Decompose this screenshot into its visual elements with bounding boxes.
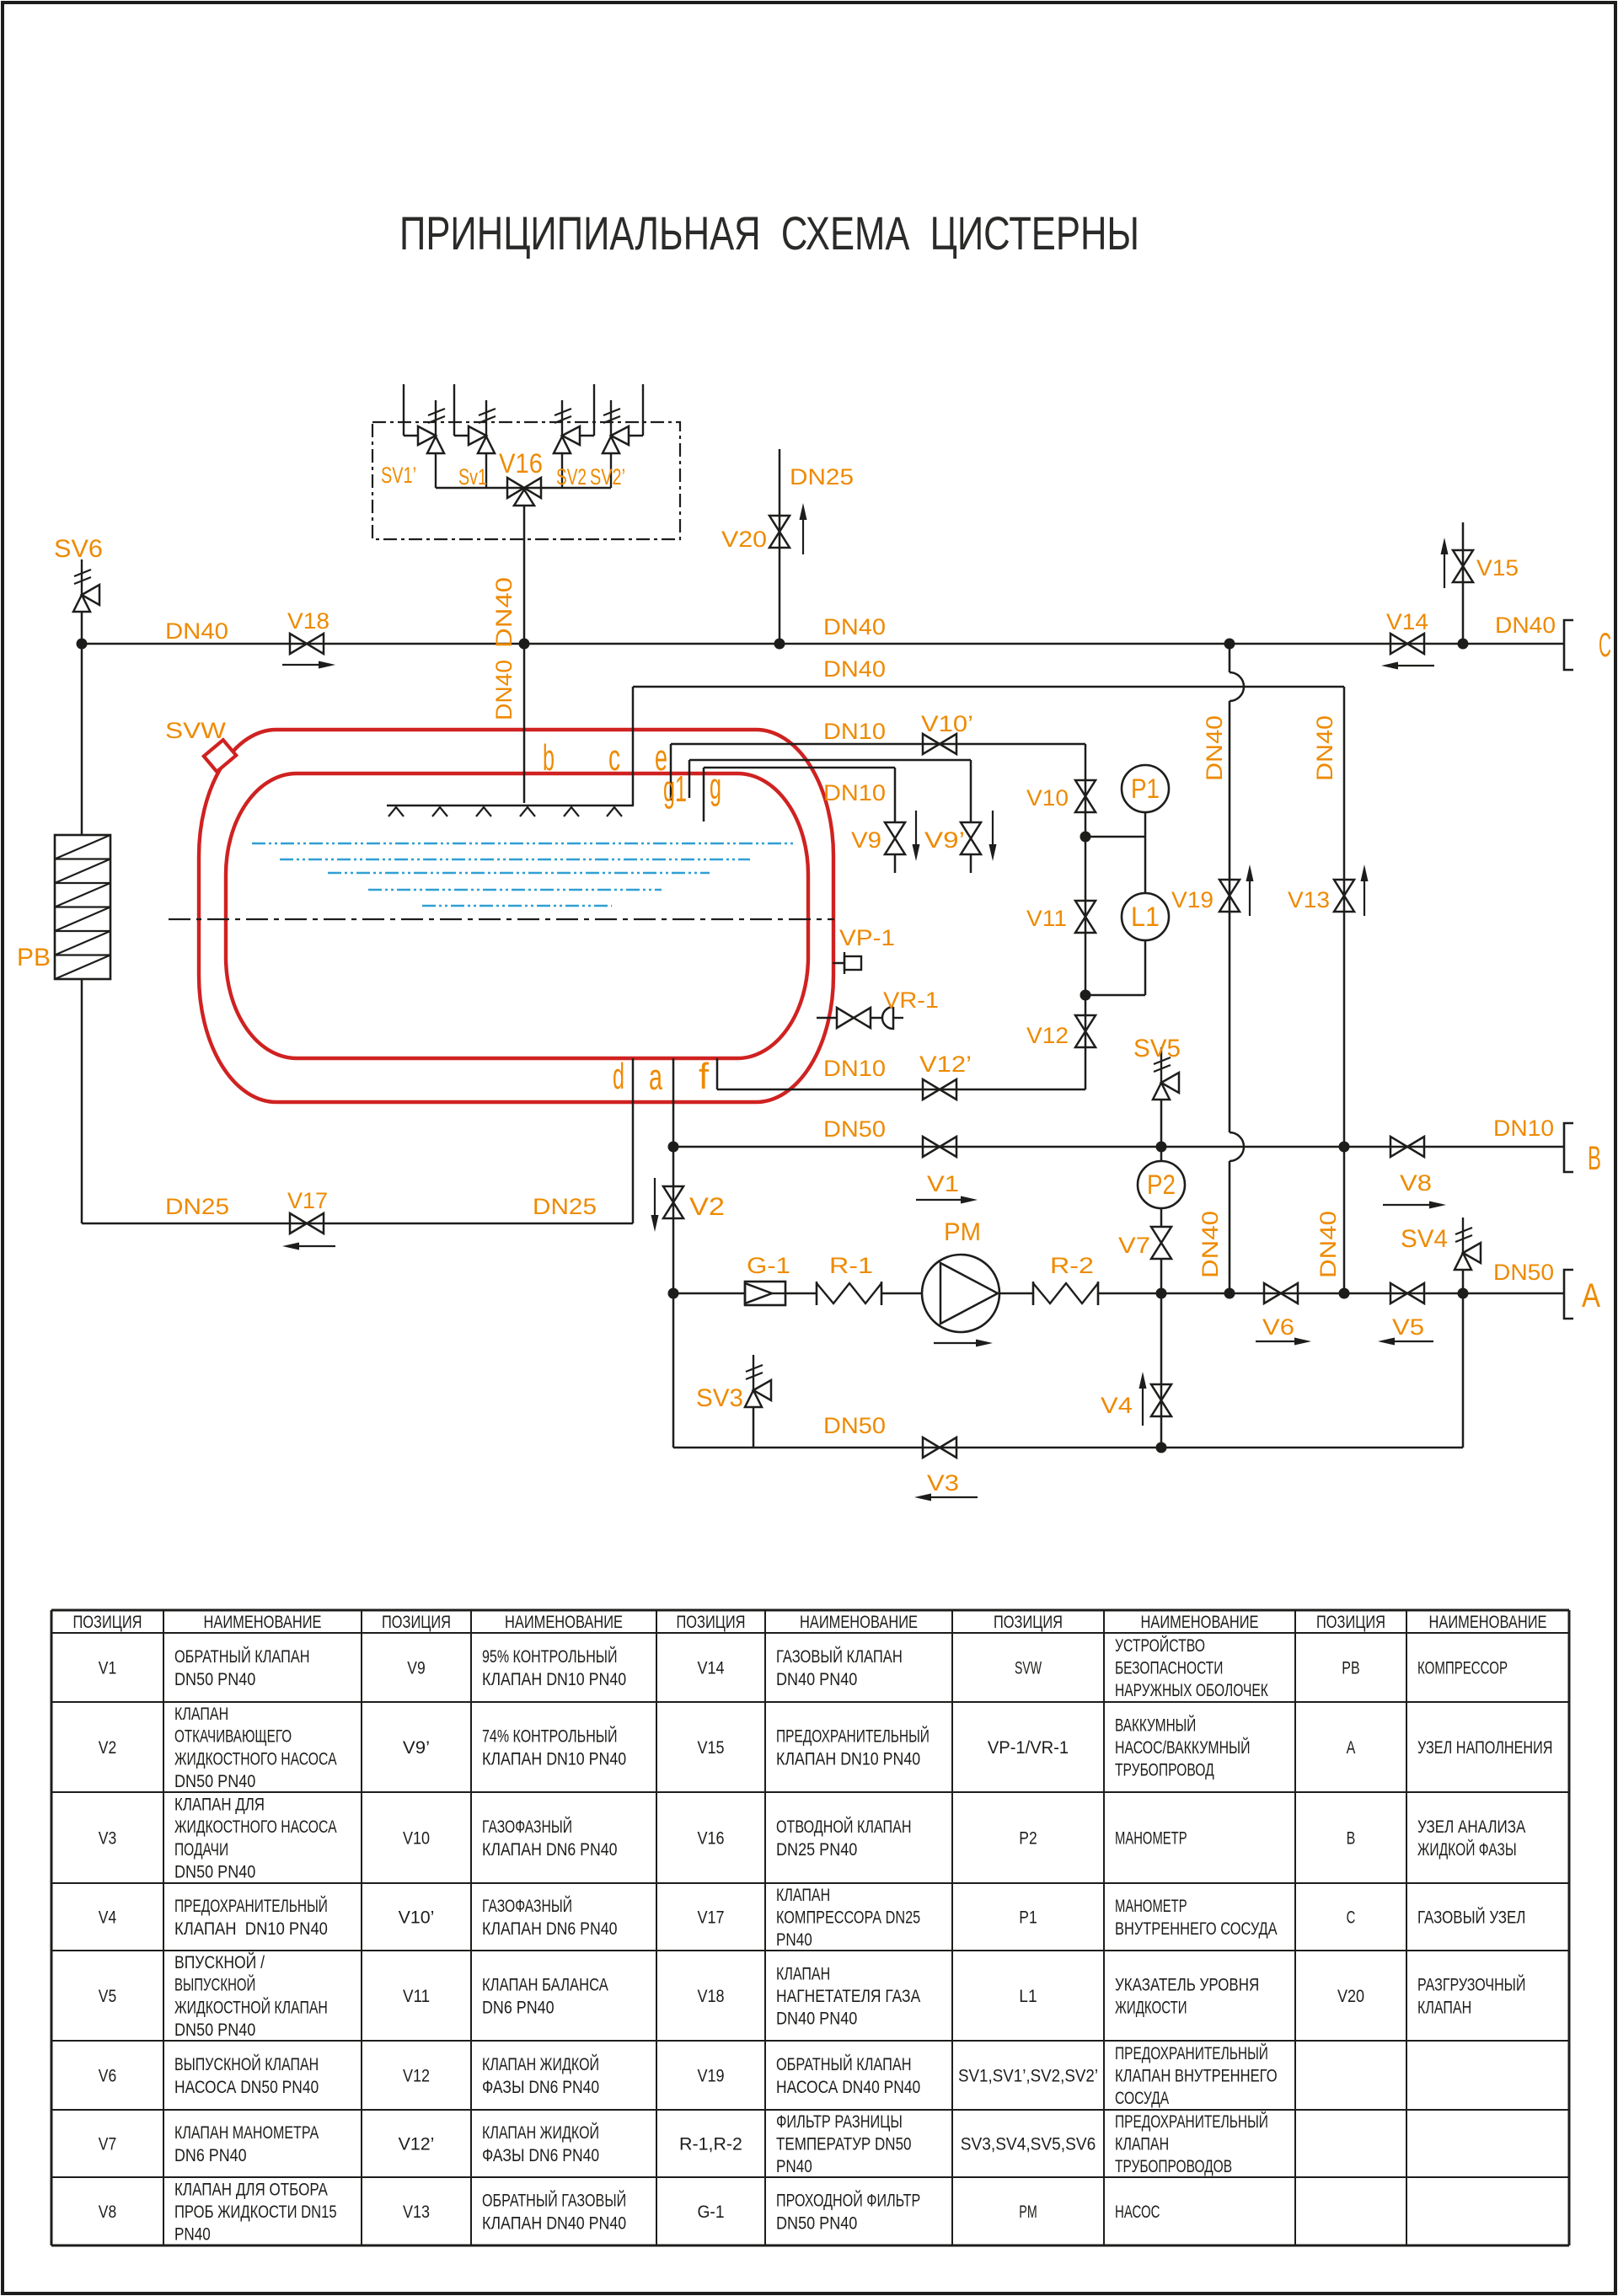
pipe SV3 to loop xyxy=(753,1407,755,1448)
svg-text:ПРОХОДНОЙ ФИЛЬТР: ПРОХОДНОЙ ФИЛЬТР xyxy=(776,2191,920,2211)
svg-text:УСТРОЙСТВО: УСТРОЙСТВО xyxy=(1115,1635,1205,1656)
valve V5 liquid xyxy=(1390,1283,1424,1303)
svg-text:DN50 PN40: DN50 PN40 xyxy=(776,2213,857,2233)
svg-text:V1: V1 xyxy=(99,1659,116,1678)
svg-text:КОМПРЕССОРА DN25: КОМПРЕССОРА DN25 xyxy=(776,1908,920,1928)
svg-text:ПОЗИЦИЯ: ПОЗИЦИЯ xyxy=(994,1613,1063,1632)
svg-text:V15: V15 xyxy=(697,1738,724,1758)
svg-text:КЛАПАН DN40 PN40: КЛАПАН DN40 PN40 xyxy=(482,2213,626,2233)
svg-text:DN40: DN40 xyxy=(1315,1211,1341,1278)
filter R-1 xyxy=(816,1282,818,1305)
svg-text:V4: V4 xyxy=(1101,1393,1133,1418)
svg-text:КЛАПАН ЖИДКОЙ: КЛАПАН ЖИДКОЙ xyxy=(482,2054,599,2074)
svg-text:КОМПРЕССОР: КОМПРЕССОР xyxy=(1417,1659,1508,1678)
svg-text:SV2’: SV2’ xyxy=(590,464,625,490)
svg-text:V20: V20 xyxy=(721,527,767,552)
svg-text:КЛАПАН ВНУТРЕННЕГО: КЛАПАН ВНУТРЕННЕГО xyxy=(1115,2067,1278,2086)
table grid xyxy=(51,1609,1569,1612)
gauge L1 link xyxy=(1085,994,1145,997)
pipe SV6 to main xyxy=(81,612,83,644)
svg-text:V17: V17 xyxy=(287,1188,328,1213)
pipe node b riser xyxy=(523,506,526,803)
svg-text:V7: V7 xyxy=(1118,1233,1150,1258)
svg-text:VR-1: VR-1 xyxy=(883,987,939,1013)
svg-text:НАСОСА DN40 PN40: НАСОСА DN40 PN40 xyxy=(776,2078,920,2097)
liquid level line 3 xyxy=(328,872,710,874)
gauge P1 stem xyxy=(1144,812,1147,893)
svg-text:DN40: DN40 xyxy=(1495,613,1556,638)
svg-text:V11: V11 xyxy=(403,1987,430,2006)
pipe DN10 liquid line f xyxy=(717,1089,1085,1091)
svg-text:DN40: DN40 xyxy=(165,618,228,644)
pipe SV4 to pump line xyxy=(1462,1270,1465,1293)
tank axis centerline xyxy=(169,918,834,920)
flow arrow V4 xyxy=(1142,1389,1144,1426)
svg-text:КЛАПАН: КЛАПАН xyxy=(1115,2135,1169,2154)
svg-text:b: b xyxy=(543,737,555,779)
pipe DN50 line B xyxy=(673,1146,1564,1148)
svg-text:DN40: DN40 xyxy=(1312,715,1337,781)
svg-text:c: c xyxy=(608,737,620,779)
svg-text:DN40: DN40 xyxy=(491,577,517,648)
junction at V19 riser xyxy=(1224,639,1235,650)
svg-text:SVW: SVW xyxy=(1015,1659,1042,1678)
svg-text:КЛАПАН DN10 PN40: КЛАПАН DN10 PN40 xyxy=(174,1919,328,1939)
svg-text:DN40: DN40 xyxy=(823,656,886,682)
svg-text:V13: V13 xyxy=(1288,887,1330,913)
junction V19-pump xyxy=(1224,1288,1235,1299)
svg-text:КЛАПАН: КЛАПАН xyxy=(174,1705,228,1724)
svg-text:ФАЗЫ DN6 PN40: ФАЗЫ DN6 PN40 xyxy=(482,2146,599,2165)
svg-text:ЖИДКОСТИ: ЖИДКОСТИ xyxy=(1115,1998,1187,2017)
svg-text:V11: V11 xyxy=(1026,906,1067,931)
svg-text:SV5: SV5 xyxy=(1133,1035,1181,1062)
svg-text:DN25 PN40: DN25 PN40 xyxy=(776,1840,857,1860)
pipe V7 to pump line xyxy=(1160,1259,1163,1293)
svg-text:ВЫПУСКНОЙ: ВЫПУСКНОЙ xyxy=(174,1975,255,1995)
junction at V20 xyxy=(774,639,785,650)
svg-text:DN40: DN40 xyxy=(1202,715,1227,781)
svg-text:SV3,SV4,SV5,SV6: SV3,SV4,SV5,SV6 xyxy=(961,2135,1096,2154)
svg-text:V12: V12 xyxy=(1026,1023,1069,1048)
svg-text:g: g xyxy=(710,766,721,807)
flow arrow V17 xyxy=(299,1245,335,1247)
pipe DN40 gas return line xyxy=(633,686,1344,688)
svg-text:SVW: SVW xyxy=(165,718,227,743)
svg-text:DN10: DN10 xyxy=(823,1056,886,1081)
svg-text:G-1: G-1 xyxy=(747,1253,790,1278)
junction P2-pump xyxy=(1156,1288,1167,1299)
pipe riser to node d xyxy=(632,1058,635,1223)
junction at b-line xyxy=(519,639,530,650)
svg-text:ПРЕДОХРАНИТЕЛЬНЫЙ: ПРЕДОХРАНИТЕЛЬНЫЙ xyxy=(1115,2043,1268,2063)
svg-text:ГАЗОВЫЙ УЗЕЛ: ГАЗОВЫЙ УЗЕЛ xyxy=(1417,1908,1525,1928)
pipe DN40 main gas line xyxy=(82,643,1564,645)
pipe V20 branch xyxy=(779,449,781,644)
svg-text:ПРЕДОХРАНИТЕЛЬНЫЙ: ПРЕДОХРАНИТЕЛЬНЫЙ xyxy=(174,1896,328,1916)
valve V9prime 74pct control xyxy=(961,822,981,854)
svg-text:V18: V18 xyxy=(287,608,329,634)
valve V17 xyxy=(290,1213,324,1234)
junction V13-pump xyxy=(1339,1288,1350,1299)
spray header xyxy=(387,805,634,806)
svg-text:УЗЕЛ НАПОЛНЕНИЯ: УЗЕЛ НАПОЛНЕНИЯ xyxy=(1417,1738,1553,1758)
junction V4-loop xyxy=(1156,1442,1167,1453)
valve V15 safety xyxy=(1453,550,1473,582)
junction SV4-pump xyxy=(1458,1288,1469,1299)
svg-text:A: A xyxy=(1582,1277,1600,1314)
connector A bracket xyxy=(1564,1270,1573,1319)
svg-text:DN40 PN40: DN40 PN40 xyxy=(776,2010,857,2029)
svg-text:f: f xyxy=(699,1056,710,1097)
svg-text:DN25: DN25 xyxy=(533,1194,597,1219)
svg-text:ОТКАЧИВАЮЩЕГО: ОТКАЧИВАЮЩЕГО xyxy=(174,1727,292,1747)
svg-text:V6: V6 xyxy=(1262,1314,1294,1340)
pipe node g riser xyxy=(703,768,705,822)
svg-text:ГАЗОФАЗНЫЙ: ГАЗОФАЗНЫЙ xyxy=(482,1817,572,1837)
valve V8 sampling xyxy=(1390,1137,1424,1157)
svg-text:СОСУДА: СОСУДА xyxy=(1115,2089,1169,2108)
svg-text:B: B xyxy=(1347,1829,1356,1849)
svg-text:DN50 PN40: DN50 PN40 xyxy=(174,2020,255,2040)
svg-text:V2: V2 xyxy=(689,1193,725,1221)
pipe node c riser xyxy=(632,687,635,805)
flow arrow PM xyxy=(934,1342,976,1344)
svg-text:МАНОМЕТР: МАНОМЕТР xyxy=(1115,1897,1187,1916)
valve V16 three-way xyxy=(507,478,541,498)
junction gauge top xyxy=(1080,832,1091,843)
svg-text:КЛАПАН: КЛАПАН xyxy=(776,1964,830,1983)
svg-text:74% КОНТРОЛЬНЫЙ: 74% КОНТРОЛЬНЫЙ xyxy=(482,1726,618,1747)
svg-text:VP-1: VP-1 xyxy=(839,925,895,950)
compressor PB xyxy=(55,835,110,979)
flow arrow V19 xyxy=(1249,881,1251,916)
svg-text:DN40: DN40 xyxy=(491,660,517,720)
svg-text:V19: V19 xyxy=(1171,887,1213,913)
svg-text:НАИМЕНОВАНИЕ: НАИМЕНОВАНИЕ xyxy=(1141,1613,1259,1632)
svg-text:DN6 PN40: DN6 PN40 xyxy=(482,1998,555,2017)
gauge P2 stem bottom xyxy=(1160,1208,1163,1227)
svg-text:НАИМЕНОВАНИЕ: НАИМЕНОВАНИЕ xyxy=(204,1613,322,1632)
svg-text:V12: V12 xyxy=(403,2067,430,2086)
valve V18 xyxy=(290,634,324,654)
svg-text:P1: P1 xyxy=(1019,1908,1037,1928)
svg-text:SV3: SV3 xyxy=(696,1384,743,1412)
pipe DN50 bottom loop xyxy=(673,1447,1463,1449)
junction a-pump xyxy=(668,1288,679,1299)
valve V14 xyxy=(1390,634,1424,654)
svg-text:d: d xyxy=(613,1056,624,1097)
svg-text:95% КОНТРОЛЬНЫЙ: 95% КОНТРОЛЬНЫЙ xyxy=(482,1646,618,1667)
liquid level line 2 xyxy=(280,859,750,860)
pipe V15 branch xyxy=(1462,522,1465,644)
svg-text:B: B xyxy=(1588,1140,1601,1177)
pipe node e riser xyxy=(670,744,672,800)
pipe node f riser xyxy=(716,1058,719,1089)
filter R-2 xyxy=(1032,1282,1035,1305)
svg-text:SV4: SV4 xyxy=(1401,1225,1448,1253)
flow arrow V20 xyxy=(802,520,804,554)
svg-text:L1: L1 xyxy=(1019,1987,1037,2006)
liquid level line 4 xyxy=(368,889,662,891)
svg-text:L1: L1 xyxy=(1131,902,1160,932)
strainer G-1 xyxy=(745,1282,785,1305)
svg-text:V12’: V12’ xyxy=(399,2135,435,2154)
svg-text:КЛАПАН МАНОМЕТРА: КЛАПАН МАНОМЕТРА xyxy=(174,2123,319,2143)
svg-text:ВАККУМНЫЙ: ВАККУМНЫЙ xyxy=(1115,1715,1196,1735)
svg-text:DN50: DN50 xyxy=(823,1116,886,1142)
safety valve SV2 xyxy=(593,384,595,436)
pipe PB to DN25 line xyxy=(81,979,83,1223)
svg-text:КЛАПАН БАЛАНСА: КЛАПАН БАЛАНСА xyxy=(482,1976,608,1995)
svg-text:ВПУСКНОЙ /: ВПУСКНОЙ / xyxy=(174,1952,265,1972)
svg-text:P2: P2 xyxy=(1019,1829,1037,1849)
svg-text:DN40 PN40: DN40 PN40 xyxy=(776,1670,857,1689)
flow arrow V8 xyxy=(1383,1204,1429,1206)
svg-text:PN40: PN40 xyxy=(776,2157,812,2176)
safety valve SV4 xyxy=(1462,1218,1464,1253)
svg-text:УЗЕЛ АНАЛИЗА: УЗЕЛ АНАЛИЗА xyxy=(1417,1817,1525,1837)
pressure gauge P2 xyxy=(1138,1161,1185,1208)
svg-text:V18: V18 xyxy=(697,1987,724,2006)
junction at SV6 xyxy=(77,639,88,650)
valve V9 95pct control xyxy=(885,822,905,854)
svg-text:DN10: DN10 xyxy=(823,780,886,805)
junction a-B xyxy=(668,1142,679,1153)
svg-text:DN50 PN40: DN50 PN40 xyxy=(174,1670,255,1689)
svg-text:ЖИДКОЙ ФАЗЫ: ЖИДКОЙ ФАЗЫ xyxy=(1417,1839,1517,1860)
svg-text:a: a xyxy=(649,1057,662,1098)
valve V1 check xyxy=(923,1137,956,1157)
svg-text:PN40: PN40 xyxy=(776,1930,812,1950)
svg-text:V6: V6 xyxy=(99,2067,116,2086)
svg-text:DN50: DN50 xyxy=(1493,1260,1554,1285)
flow arrow V9prime xyxy=(992,811,994,844)
svg-text:DN10: DN10 xyxy=(823,719,886,744)
svg-text:V8: V8 xyxy=(99,2202,116,2222)
junction SV5-B xyxy=(1156,1142,1167,1153)
pipe V9prime drop xyxy=(970,760,972,822)
junction at V15 xyxy=(1458,639,1469,650)
svg-text:ОБРАТНЫЙ КЛАПАН: ОБРАТНЫЙ КЛАПАН xyxy=(776,2054,912,2074)
valve V13 gas check xyxy=(1334,880,1354,912)
svg-text:НАИМЕНОВАНИЕ: НАИМЕНОВАНИЕ xyxy=(800,1613,918,1632)
pipe DN25 compressor line xyxy=(82,1223,633,1225)
svg-text:БЕЗОПАСНОСТИ: БЕЗОПАСНОСТИ xyxy=(1115,1659,1223,1678)
tank inner vessel xyxy=(226,773,808,1058)
svg-text:V13: V13 xyxy=(403,2202,430,2222)
svg-text:DN50 PN40: DN50 PN40 xyxy=(174,1863,255,1882)
vacuum port VP-1 xyxy=(833,962,844,965)
valve V12prime xyxy=(923,1079,956,1100)
svg-text:ПРЕДОХРАНИТЕЛЬНЫЙ: ПРЕДОХРАНИТЕЛЬНЫЙ xyxy=(1115,2111,1268,2132)
svg-text:DN25: DN25 xyxy=(165,1194,229,1219)
svg-text:g1: g1 xyxy=(663,768,687,810)
svg-text:КЛАПАН ДЛЯ: КЛАПАН ДЛЯ xyxy=(174,1795,265,1814)
svg-text:P2: P2 xyxy=(1147,1169,1176,1200)
SVW device xyxy=(204,740,236,772)
svg-text:V9’: V9’ xyxy=(403,1738,430,1758)
svg-text:PM: PM xyxy=(1019,2202,1037,2222)
svg-text:V12’: V12’ xyxy=(919,1052,972,1077)
pump PM xyxy=(922,1255,999,1332)
svg-text:ВНУТРЕННЕГО СОСУДА: ВНУТРЕННЕГО СОСУДА xyxy=(1115,1919,1278,1939)
svg-text:НАСОС/ВАККУМНЫЙ: НАСОС/ВАККУМНЫЙ xyxy=(1115,1737,1251,1758)
flow arrow V18 xyxy=(282,664,319,666)
svg-text:G-1: G-1 xyxy=(697,2202,724,2222)
valve V19 pump check xyxy=(1219,880,1240,912)
flow arrow V3 xyxy=(931,1496,978,1498)
svg-text:ВЫПУСКНОЙ КЛАПАН: ВЫПУСКНОЙ КЛАПАН xyxy=(174,2054,319,2074)
valve V20 unloading xyxy=(769,516,790,548)
svg-text:V7: V7 xyxy=(99,2135,116,2154)
svg-text:C: C xyxy=(1347,1908,1356,1928)
svg-text:VP-1/VR-1: VP-1/VR-1 xyxy=(988,1738,1069,1758)
svg-text:НАГНЕТАТЕЛЯ ГАЗА: НАГНЕТАТЕЛЯ ГАЗА xyxy=(776,1987,920,2006)
gauge P1 link xyxy=(1085,836,1145,838)
safety valve SV3 xyxy=(753,1355,754,1390)
gauge L1 stem xyxy=(1144,940,1147,995)
pipe node g line xyxy=(704,767,895,769)
valve V6 pump outlet xyxy=(1264,1283,1298,1303)
flow arrow V15 xyxy=(1444,554,1445,588)
svg-text:НАРУЖНЫХ ОБОЛОЧЕК: НАРУЖНЫХ ОБОЛОЧЕК xyxy=(1115,1681,1268,1700)
svg-text:SV1,SV1’,SV2,SV2’: SV1,SV1’,SV2,SV2’ xyxy=(958,2067,1098,2086)
svg-text:ГАЗОФАЗНЫЙ: ГАЗОФАЗНЫЙ xyxy=(482,1896,572,1916)
svg-text:НАСОСА DN50 PN40: НАСОСА DN50 PN40 xyxy=(174,2078,319,2097)
svg-text:ТРУБОПРОВОДОВ: ТРУБОПРОВОДОВ xyxy=(1115,2157,1232,2176)
svg-text:V14: V14 xyxy=(1386,609,1428,634)
svg-text:V8: V8 xyxy=(1400,1170,1432,1196)
svg-text:ОТВОДНОЙ КЛАПАН: ОТВОДНОЙ КЛАПАН xyxy=(776,1817,912,1837)
flow arrow V5 xyxy=(1395,1341,1433,1342)
svg-text:V16: V16 xyxy=(697,1829,724,1849)
svg-text:ПОЗИЦИЯ: ПОЗИЦИЯ xyxy=(382,1613,451,1632)
svg-text:V10: V10 xyxy=(1026,785,1069,811)
svg-text:КЛАПАН ДЛЯ ОТБОРА: КЛАПАН ДЛЯ ОТБОРА xyxy=(174,2180,328,2199)
pipe node g1 riser xyxy=(688,760,691,798)
svg-text:DN50: DN50 xyxy=(823,1413,886,1438)
svg-text:V5: V5 xyxy=(99,1987,116,2006)
safety valve SV6 xyxy=(81,559,83,595)
svg-text:DN10: DN10 xyxy=(1493,1116,1554,1141)
svg-text:ЖИДКОСТНОГО НАСОСА: ЖИДКОСТНОГО НАСОСА xyxy=(174,1749,337,1769)
svg-text:РАЗГРУЗОЧНЫЙ: РАЗГРУЗОЧНЫЙ xyxy=(1417,1975,1525,1995)
valve V12 xyxy=(1075,1015,1096,1047)
svg-text:V9: V9 xyxy=(407,1659,425,1678)
valve V2 xyxy=(663,1186,683,1218)
svg-text:ФИЛЬТР РАЗНИЦЫ: ФИЛЬТР РАЗНИЦЫ xyxy=(776,2112,903,2132)
svg-text:КЛАПАН DN6 PN40: КЛАПАН DN6 PN40 xyxy=(482,1840,618,1860)
svg-text:V1: V1 xyxy=(927,1171,959,1196)
svg-text:PM: PM xyxy=(944,1218,981,1246)
pressure gauge P1 xyxy=(1122,765,1169,812)
svg-text:V14: V14 xyxy=(697,1659,724,1678)
flow arrow V14 xyxy=(1398,665,1434,666)
svg-text:PB: PB xyxy=(1342,1659,1359,1678)
manifold dash-dot box xyxy=(372,422,680,539)
svg-text:P1: P1 xyxy=(1131,773,1160,804)
liquid level line 5 xyxy=(422,905,612,907)
svg-text:V10’: V10’ xyxy=(399,1908,435,1928)
svg-text:ТЕМПЕРАТУР DN50: ТЕМПЕРАТУР DN50 xyxy=(776,2135,912,2154)
pipe DN10 gauge line e xyxy=(671,743,1085,746)
flow arrow V13 xyxy=(1364,881,1365,916)
junction V13-B xyxy=(1339,1142,1350,1153)
svg-text:КЛАПАН: КЛАПАН xyxy=(1417,1998,1471,2017)
svg-text:R-1,R-2: R-1,R-2 xyxy=(679,2135,742,2154)
svg-text:ПОЗИЦИЯ: ПОЗИЦИЯ xyxy=(1316,1613,1385,1632)
svg-text:PN40: PN40 xyxy=(174,2225,211,2245)
svg-text:ОБРАТНЫЙ ГАЗОВЫЙ: ОБРАТНЫЙ ГАЗОВЫЙ xyxy=(482,2191,626,2211)
svg-text:PB: PB xyxy=(17,944,51,971)
svg-text:V10: V10 xyxy=(403,1829,430,1849)
svg-text:ТРУБОПРОВОД: ТРУБОПРОВОД xyxy=(1115,1761,1214,1780)
liquid level line 1 xyxy=(252,843,793,844)
svg-text:НАИМЕНОВАНИЕ: НАИМЕНОВАНИЕ xyxy=(1429,1613,1547,1632)
svg-text:SV2: SV2 xyxy=(556,464,587,490)
svg-text:V20: V20 xyxy=(1337,1987,1364,2006)
pipe DN10 level line g1 xyxy=(689,759,971,762)
svg-text:V3: V3 xyxy=(927,1470,959,1496)
safety valve SV1prime xyxy=(403,384,404,436)
svg-text:C: C xyxy=(1599,627,1611,664)
svg-text:DN40: DN40 xyxy=(1197,1211,1223,1278)
svg-text:ПРЕДОХРАНИТЕЛЬНЫЙ: ПРЕДОХРАНИТЕЛЬНЫЙ xyxy=(776,1726,930,1747)
svg-text:ПОЗИЦИЯ: ПОЗИЦИЯ xyxy=(73,1613,142,1632)
svg-text:УКАЗАТЕЛЬ УРОВНЯ: УКАЗАТЕЛЬ УРОВНЯ xyxy=(1115,1976,1259,1995)
pipe DN50 pump line xyxy=(673,1293,745,1295)
svg-text:DN50 PN40: DN50 PN40 xyxy=(174,1772,255,1791)
svg-text:ОБРАТНЫЙ КЛАПАН: ОБРАТНЫЙ КЛАПАН xyxy=(174,1646,310,1667)
pipe DN40 riser V19 xyxy=(1229,644,1231,672)
svg-text:КЛАПАН DN10 PN40: КЛАПАН DN10 PN40 xyxy=(776,1749,920,1769)
flow arrow V2 xyxy=(654,1178,656,1215)
svg-text:DN40: DN40 xyxy=(823,614,886,640)
svg-text:ГАЗОВЫЙ КЛАПАН: ГАЗОВЫЙ КЛАПАН xyxy=(776,1646,903,1667)
valve V11 balance xyxy=(1075,901,1096,933)
safety valve SV5 xyxy=(1160,1047,1162,1083)
svg-text:КЛАПАН: КЛАПАН xyxy=(776,1886,830,1905)
svg-text:SV6: SV6 xyxy=(54,535,103,563)
valve V10prime xyxy=(923,734,956,754)
pipe SV5 to B xyxy=(1160,1100,1163,1147)
svg-text:НАИМЕНОВАНИЕ: НАИМЕНОВАНИЕ xyxy=(505,1613,623,1632)
flow arrow V6 xyxy=(1256,1341,1294,1342)
svg-text:V15: V15 xyxy=(1476,555,1519,581)
pipe node a drop xyxy=(672,1058,675,1448)
svg-text:V19: V19 xyxy=(697,2067,724,2086)
tank outer shell xyxy=(199,730,833,1102)
svg-text:ЖИДКОСТНОГО НАСОСА: ЖИДКОСТНОГО НАСОСА xyxy=(174,1817,337,1837)
svg-text:МАНОМЕТР: МАНОМЕТР xyxy=(1115,1829,1187,1849)
svg-text:V3: V3 xyxy=(99,1829,116,1849)
safety valve SV2prime xyxy=(642,384,644,436)
svg-text:КЛАПАН DN10 PN40: КЛАПАН DN10 PN40 xyxy=(482,1670,626,1689)
svg-text:DN6 PN40: DN6 PN40 xyxy=(174,2146,247,2165)
pipe gauge riser xyxy=(1085,744,1087,1089)
pipe V4 column xyxy=(1160,1293,1163,1448)
svg-text:ЖИДКОСТНОЙ КЛАПАН: ЖИДКОСТНОЙ КЛАПАН xyxy=(174,1997,328,2017)
svg-text:ПРИНЦИПИАЛЬНАЯ СХЕМА ЦИСТЕРН: ПРИНЦИПИАЛЬНАЯ СХЕМА ЦИСТЕРНЫ xyxy=(399,206,1139,260)
svg-text:V4: V4 xyxy=(99,1908,117,1928)
svg-text:КЛАПАН DN10 PN40: КЛАПАН DN10 PN40 xyxy=(482,1749,626,1769)
connector B bracket xyxy=(1564,1123,1573,1172)
pipe main to compressor PB xyxy=(81,644,83,835)
svg-text:V10’: V10’ xyxy=(921,711,973,736)
svg-text:ПОЗИЦИЯ: ПОЗИЦИЯ xyxy=(677,1613,746,1632)
valve V7 gauge xyxy=(1151,1227,1171,1259)
